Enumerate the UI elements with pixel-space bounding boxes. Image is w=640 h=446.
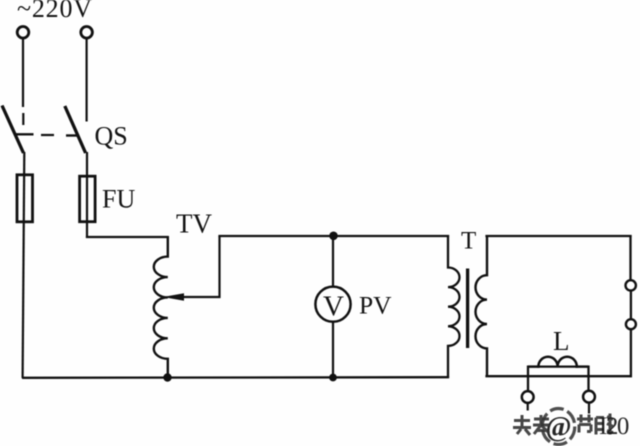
TV tap wire (182, 236, 220, 297)
switch QS blade 2 (65, 106, 86, 153)
svg-text:V: V (323, 291, 344, 323)
svg-text:QS: QS (95, 122, 128, 151)
autotransformer TV winding (154, 236, 168, 378)
svg-text:PV: PV (359, 290, 392, 319)
inductor L coil (528, 357, 589, 367)
top bus wire (218, 235, 449, 237)
switch QS contact tick 2 (66, 134, 79, 136)
plug left stub (527, 403, 529, 411)
voltmeter PV wire top (332, 236, 334, 287)
wire blade1 to fuse1 and down left rail (23, 152, 25, 378)
watermark text 能 (596, 414, 613, 435)
wire left terminal to switch (22, 38, 24, 125)
watermark text 条 (533, 415, 550, 434)
right wire middle segment (630, 290, 632, 319)
junction dot TV bottom (163, 373, 171, 381)
wire blade2 to fuse2 (86, 152, 88, 238)
right wire upper segment (629, 235, 631, 281)
terminal circle right (81, 27, 93, 39)
plug circle left (522, 391, 534, 403)
L left lead (527, 366, 529, 392)
plug circle right (583, 391, 595, 403)
svg-text:I20: I20 (599, 413, 629, 440)
right wire lower segment (630, 329, 632, 377)
wire right terminal to switch (85, 38, 87, 121)
voltmeter PV circle (315, 287, 350, 322)
watermark text 节 (577, 415, 593, 433)
svg-text:@: @ (545, 412, 571, 443)
junction dot PV top (329, 232, 338, 241)
transformer T primary winding (448, 235, 460, 378)
svg-text:T: T (461, 228, 476, 255)
fuse FU2 (80, 176, 96, 222)
switch QS blade 1 (2, 106, 24, 154)
switch QS contact tick 1 (15, 133, 34, 135)
TV tap arrowhead (163, 293, 184, 301)
terminal circle left (17, 27, 29, 39)
svg-text:~220V: ~220V (17, 0, 93, 23)
fuse FU1 (17, 175, 33, 222)
bottom rail left (22, 376, 449, 379)
transformer T core bar (466, 269, 469, 349)
wire fuse2 to TV coil top (86, 236, 169, 238)
voltmeter PV wire bottom (332, 322, 334, 378)
transformer T secondary winding (476, 235, 487, 376)
L right lead (587, 366, 589, 391)
switch QS linkage dash (41, 134, 54, 136)
secondary top wire (485, 235, 631, 237)
connector circle lower (626, 319, 636, 329)
svg-text:L: L (553, 326, 570, 356)
svg-text:TV: TV (176, 209, 212, 239)
plug right stub (588, 403, 590, 414)
bottom rail right (485, 375, 632, 377)
inductor L baseline (537, 365, 578, 367)
junction dot PV bottom (329, 374, 337, 382)
svg-text:FU: FU (102, 185, 135, 214)
watermark logo circle (542, 409, 575, 445)
connector circle upper (626, 280, 636, 290)
watermark text 头 (513, 415, 531, 435)
